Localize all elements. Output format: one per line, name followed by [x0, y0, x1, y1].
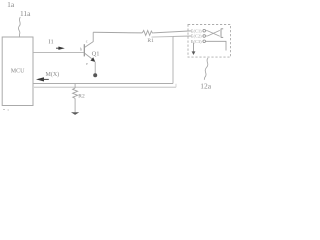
- wire pin3 to right contact: [206, 41, 227, 50]
- svg-text:11a: 11a: [20, 9, 31, 18]
- svg-text:b: b: [80, 47, 82, 52]
- svg-text:E(C2): E(C2): [191, 35, 202, 39]
- wire Q1 emitter down to terminal dot: [94, 62, 96, 74]
- wire MCU to riser (signal M(X)): [33, 83, 173, 85]
- switch crossing wires: [206, 30, 220, 36]
- MCU U1 box: [2, 37, 33, 106]
- svg-text:R2: R2: [78, 94, 85, 100]
- ghost line (scan shadow): [34, 86, 176, 88]
- connector 12a dashed box: [188, 25, 231, 58]
- scan noise dots: [3, 109, 9, 111]
- transistor Q1 collector line: [85, 32, 93, 47]
- svg-text:M(X): M(X): [46, 71, 60, 78]
- wire R1 to connector pin 1: [153, 31, 191, 33]
- transistor Q1 base bar: [84, 44, 85, 56]
- svg-text:I1: I1: [48, 39, 53, 46]
- resistor R2: [73, 88, 78, 98]
- svg-text:12a: 12a: [200, 81, 212, 90]
- contact bar: [221, 29, 223, 38]
- arrow I1 direction (right): [56, 47, 65, 50]
- resistor R2 bottom lead: [74, 98, 76, 112]
- wire MCU to Q1 base (signal I1): [33, 51, 84, 53]
- svg-text:c: c: [86, 38, 88, 43]
- transistor Q1 emitter line with arrow: [85, 53, 93, 59]
- plug leader arrow inside connector: [193, 43, 195, 52]
- ground arrow under R2: [71, 112, 79, 115]
- pin circle 1: [203, 29, 206, 32]
- emitter terminal dot: [93, 73, 97, 77]
- resistor R1: [142, 30, 153, 35]
- riser wire to connector pin 2: [173, 36, 191, 84]
- svg-text:E(C3): E(C3): [191, 40, 202, 44]
- svg-text:R1: R1: [147, 38, 154, 44]
- pin circle 2: [203, 35, 206, 38]
- svg-text:Q1: Q1: [92, 51, 100, 58]
- pin circle 3: [203, 40, 206, 43]
- ghost corner: [175, 84, 177, 87]
- svg-text:MCU: MCU: [11, 69, 25, 75]
- top rail wire collector to R1: [93, 31, 142, 34]
- svg-text:1a: 1a: [7, 0, 15, 9]
- resistor R2 top lead: [74, 84, 76, 89]
- svg-text:e: e: [86, 61, 88, 66]
- arrow M(X) direction (left): [36, 77, 49, 81]
- svg-text:E(C1): E(C1): [191, 29, 202, 33]
- leader squiggle from 11a to MCU box: [18, 17, 20, 37]
- ghost of rail (scan shadow): [152, 36, 174, 39]
- leader squiggle from connector box to 12a: [204, 58, 208, 80]
